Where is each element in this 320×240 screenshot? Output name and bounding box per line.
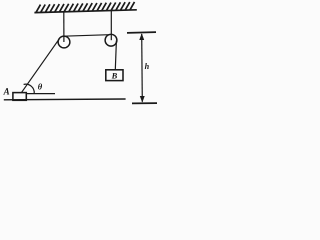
ground line	[4, 98, 126, 101]
horizontal reference line for angle	[26, 93, 55, 95]
dimension h top line	[127, 31, 156, 34]
background	[0, 0, 159, 110]
pulley P1 (left)	[58, 36, 70, 48]
angle arc	[24, 84, 35, 93]
ceiling line	[34, 10, 136, 13]
arrowhead down	[140, 96, 145, 103]
svg-text:h: h	[145, 62, 150, 71]
rope from pulley P2 down to block B	[115, 41, 116, 71]
svg-text:θ: θ	[38, 82, 43, 92]
right pulley support wire	[110, 11, 112, 40]
block B	[106, 70, 123, 81]
ceiling hatching	[36, 2, 135, 13]
dimension h arrow line	[141, 34, 144, 102]
pulley P2 (right)	[105, 34, 117, 46]
rope from block A to pulley P1	[21, 39, 59, 93]
left pulley support wire	[63, 12, 65, 42]
arrowhead up	[139, 33, 144, 40]
block A	[13, 93, 26, 101]
svg-text:B: B	[111, 70, 118, 80]
dimension h bottom line	[132, 102, 157, 104]
svg-text:A: A	[3, 86, 10, 96]
rope between pulleys	[64, 35, 110, 37]
